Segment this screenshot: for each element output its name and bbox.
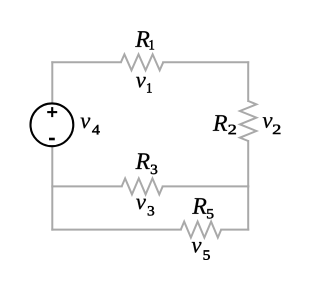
resistor R5 (zigzag) xyxy=(181,222,221,238)
label R1 xyxy=(135,31,154,49)
resistor R3 (zigzag) xyxy=(122,178,163,194)
wire: top horizontal, left segment xyxy=(52,61,121,63)
wire: right vertical, bottom segment (middle node to bottom corner) xyxy=(247,186,249,229)
wire: right vertical, top segment xyxy=(247,62,249,101)
wire: right vertical, middle segment (R2 to middle node) xyxy=(247,141,249,186)
wire: left vertical, bottom segment (source to bottom corner) xyxy=(51,146,53,230)
wire: left vertical, top segment (top corner to source) xyxy=(51,62,53,104)
voltage source v4 (circle) xyxy=(31,103,74,146)
label R3 xyxy=(135,153,157,174)
label v2 xyxy=(263,117,281,134)
label v1 xyxy=(136,77,152,93)
label v4 xyxy=(81,118,100,135)
label v5 xyxy=(192,242,210,260)
voltage source minus sign xyxy=(49,138,55,141)
wire: bottom horizontal, right segment xyxy=(221,229,248,231)
label R2 xyxy=(213,115,236,134)
wire: top horizontal, right segment xyxy=(163,61,248,63)
wire: bottom horizontal, left segment xyxy=(52,229,181,231)
wire: middle horizontal, left segment xyxy=(52,185,121,187)
resistor R1 (zigzag) xyxy=(121,54,163,70)
resistor R2 (zigzag) xyxy=(240,101,257,141)
label v3 xyxy=(136,199,154,216)
voltage source plus sign xyxy=(47,107,57,117)
wire: middle horizontal, right segment xyxy=(163,185,249,187)
label R5 xyxy=(192,198,213,218)
